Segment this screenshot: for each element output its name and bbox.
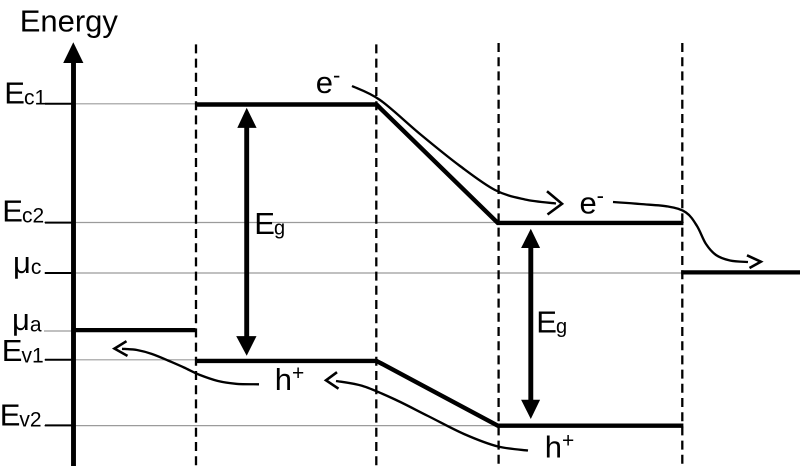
svg-text:-: - — [597, 183, 604, 208]
electron flow arrowhead 1 (open chevron) — [547, 191, 562, 214]
energy axis arrowhead — [63, 42, 83, 63]
svg-text:Eg: Eg — [254, 206, 285, 241]
electron flow curve 1 (top) — [352, 86, 556, 204]
dashed boundary 1 — [195, 44, 197, 466]
tick E_v1 — [45, 359, 74, 361]
band mu_c (contact c) — [681, 270, 800, 274]
level line E_c2 (gray) — [44, 222, 684, 224]
Eg arrow 2 top head — [521, 229, 540, 248]
svg-text:+: + — [292, 362, 304, 385]
Eg arrow 1 top head — [237, 108, 256, 128]
Eg arrow 2 shaft — [528, 245, 533, 402]
hole flow curve 1 (to contact a) — [122, 349, 259, 385]
level line E_c1 (gray) — [44, 103, 196, 105]
level line E_v1 (gray) — [44, 359, 378, 361]
hole flow arrowhead 1 (open chevron) — [115, 341, 128, 356]
svg-text:+: + — [562, 430, 574, 453]
level line E_v2 (gray) — [44, 425, 499, 427]
tick E_v2 — [45, 424, 74, 426]
tick E_c1 — [45, 103, 74, 105]
svg-text:-: - — [333, 63, 340, 88]
svg-text:Ec1: Ec1 — [4, 75, 46, 110]
band mu_a (contact a) — [74, 328, 196, 332]
valence band E_v1 / slope / E_v2 — [196, 361, 684, 426]
dashed boundary 4 — [681, 43, 683, 466]
electron flow curve 2 (right) — [613, 202, 748, 262]
svg-text:Ev2: Ev2 — [0, 397, 42, 432]
dashed boundary 3 — [497, 43, 499, 466]
svg-text:Energy: Energy — [20, 4, 119, 39]
tick mu_c — [45, 272, 74, 274]
svg-text:μc: μc — [13, 245, 41, 280]
level line mu_c (gray) — [44, 272, 800, 274]
svg-text:Ec2: Ec2 — [2, 193, 44, 228]
Eg arrow 1 bottom head — [236, 336, 256, 356]
tick E_c2 — [45, 222, 74, 224]
electron flow arrowhead 2 (open chevron) — [747, 255, 761, 268]
svg-text:μa: μa — [12, 302, 42, 337]
energy axis shaft — [71, 60, 76, 466]
svg-text:h: h — [275, 362, 292, 397]
conduction band E_c1 / slope / E_c2 — [196, 105, 684, 223]
level line mu_a (gray tick) — [44, 330, 74, 332]
svg-text:e: e — [316, 65, 333, 100]
svg-text:h: h — [545, 429, 562, 464]
svg-text:e: e — [580, 186, 597, 221]
Eg arrow 2 bottom head — [521, 400, 540, 419]
svg-text:Ev1: Ev1 — [2, 333, 44, 368]
dashed boundary 2 — [375, 44, 377, 466]
hole flow curve 2 (region 3 to 2) — [336, 381, 528, 451]
hole flow arrowhead 2 (open chevron) — [326, 372, 339, 389]
Eg arrow 1 shaft — [244, 124, 249, 339]
svg-text:Eg: Eg — [536, 304, 567, 339]
